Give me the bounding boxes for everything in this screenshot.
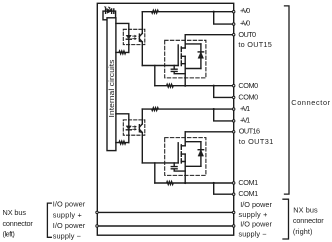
- terminal COM0 (2): [233, 96, 235, 98]
- node: +V1 jumper junction: [213, 108, 215, 110]
- svg-text:Connector: Connector: [291, 98, 330, 107]
- terminal +V1: [233, 108, 235, 110]
- wire: +V0 jumper to second +V0 terminal: [214, 12, 234, 24]
- MOSFET Q1 source lead down to COM0 rail: [184, 56, 186, 85]
- terminal +V0 (2): [233, 23, 235, 25]
- terminal COM1 (2): [233, 193, 235, 195]
- resistor R6 on COM1 rail and COM1 rail wire: [155, 182, 234, 185]
- optocoupler U1 phototransistor: [138, 34, 140, 41]
- optocoupler U1 dashed box: [123, 29, 145, 44]
- wire: OUT16 rail: [185, 131, 234, 133]
- svg-text:+V0: +V0: [240, 19, 250, 28]
- wire: opto LED cathode down to resistor wire: [128, 39, 130, 52]
- outer unit box: [97, 3, 233, 235]
- svg-text:connector: connector: [3, 219, 34, 228]
- svg-text:+V1: +V1: [240, 116, 250, 125]
- LED D1 emission arrows: [104, 6, 111, 10]
- terminal OUT0: [233, 34, 235, 36]
- MOSFET Q1 channel segments: [180, 47, 182, 66]
- terminal I/O power + right: [233, 211, 235, 213]
- wire: photot2 emitter down to gate wire 2: [141, 133, 143, 163]
- wire: internal circuits to optocoupler LED anode: [116, 23, 129, 35]
- gate wire from opto emitter to gate: [142, 65, 178, 67]
- svg-text:COM1: COM1: [238, 189, 258, 198]
- wire: COM0 jumper to second COM0 terminal: [214, 86, 234, 98]
- optocoupler U2 phototransistor: [138, 125, 140, 132]
- svg-text:+V1: +V1: [240, 104, 250, 113]
- wire: OUT0 rail: [185, 34, 234, 36]
- wire: COM1 jumper to second COM1 terminal: [214, 183, 234, 194]
- svg-text:COM0: COM0: [238, 81, 258, 90]
- zener ZD2 gate-source: [171, 163, 185, 171]
- internal circuits box: [107, 18, 116, 151]
- svg-text:connector: connector: [293, 216, 324, 225]
- resistor R3 on COM0 rail and COM0 rail wire: [155, 84, 234, 87]
- zener ZD1 gate-source: [171, 66, 185, 74]
- MOSFET Q2 dashed box: [165, 138, 206, 176]
- MOSFET Q1 gate bar: [177, 45, 179, 66]
- svg-text:I/O power: I/O power: [53, 200, 86, 209]
- svg-text:Internal circuits: Internal circuits: [107, 59, 116, 117]
- light arrows U1: [133, 35, 137, 40]
- node: COM0 jumper junction: [213, 85, 215, 87]
- svg-text:to OUT15: to OUT15: [238, 40, 271, 49]
- svg-text:I/O power: I/O power: [240, 200, 272, 209]
- svg-text:supply +: supply +: [239, 210, 268, 219]
- terminal COM0: [233, 85, 235, 87]
- MOSFET Q1 interior bottom wire: [185, 68, 201, 70]
- bracket: I/O power supply (left): [47, 203, 51, 237]
- wire: +V1 jumper to second +V1 terminal: [214, 109, 234, 121]
- wire: internal circuits to optocoupler 2 LED anode: [116, 114, 129, 126]
- terminal +V1 (2): [233, 120, 235, 122]
- svg-text:+V0: +V0: [240, 6, 250, 15]
- wire: photot2 collector up to +V1 rail: [141, 109, 143, 124]
- MOSFET Q2 stubs: [181, 146, 185, 162]
- node: source junction on COM1: [184, 182, 186, 184]
- svg-text:COM1: COM1: [238, 178, 258, 187]
- svg-text:(left): (left): [3, 229, 15, 238]
- svg-text:supply −: supply −: [53, 232, 81, 241]
- terminal COM1: [233, 182, 235, 184]
- svg-text:NX bus: NX bus: [293, 205, 318, 214]
- MOSFET Q1 stubs: [181, 48, 185, 64]
- terminal I/O power + left: [96, 211, 98, 213]
- svg-text:I/O power: I/O power: [240, 220, 272, 229]
- svg-text:NX bus: NX bus: [3, 208, 27, 217]
- MOSFET Q1 dashed box: [165, 40, 206, 78]
- optocoupler U1 LED: [126, 35, 131, 39]
- node: COM1 jumper junction: [213, 182, 215, 184]
- wire: phototransistor emitter down to gate wire: [141, 42, 143, 66]
- wire: opto2 LED cathode down: [128, 130, 130, 143]
- MOSFET Q1 interior top wire: [185, 43, 201, 45]
- svg-text:COM0: COM0: [238, 92, 258, 101]
- gate wire 2: [142, 162, 178, 164]
- terminal +V0: [233, 11, 235, 13]
- terminal I/O power - left: [96, 225, 98, 227]
- LED D1 (indicator diode on box top edge): [106, 9, 114, 13]
- body diode D2: [200, 44, 202, 69]
- svg-text:to OUT31: to OUT31: [239, 137, 274, 146]
- svg-text:OUT16: OUT16: [239, 127, 260, 136]
- svg-text:OUT0: OUT0: [238, 30, 256, 39]
- terminal circles right edge: [96, 11, 235, 228]
- svg-text:supply +: supply +: [53, 210, 82, 219]
- resistor R4 (opto2 LED series): [116, 141, 129, 144]
- wire: I/O power supply - rail: [97, 225, 234, 227]
- wire: gate pull-down branch: [154, 66, 156, 86]
- resistor R1 (opto LED series): [116, 51, 129, 54]
- MOSFET Q2 channel segments: [180, 145, 182, 163]
- wire: gate 2 pull-down branch: [154, 163, 156, 183]
- node: +V0 jumper junction: [213, 11, 215, 13]
- node: source junction on COM0: [184, 85, 186, 87]
- optocoupler U2 LED: [126, 126, 131, 129]
- wire: I/O power supply + rail: [97, 211, 234, 213]
- body diode D3: [200, 142, 202, 167]
- resistor R2 on +V0 rail and +V0 rail wire: [142, 10, 233, 13]
- MOSFET Q2 source lead down to COM1 rail: [184, 154, 186, 183]
- optocoupler U2 dashed box: [123, 120, 145, 135]
- svg-text:supply −: supply −: [239, 229, 267, 238]
- MOSFET Q1 drain lead: [184, 35, 186, 48]
- resistor R5 on +V1 rail and +V1 rail wire: [142, 108, 233, 111]
- wire: phototransistor collector up to +V0 rail: [141, 12, 143, 34]
- MOSFET Q2 interior bottom wire: [185, 165, 201, 167]
- svg-text:(right): (right): [293, 227, 313, 236]
- bracket: NX bus connector (right): [283, 199, 289, 239]
- MOSFET Q2 drain lead: [184, 132, 186, 146]
- terminal I/O power - right: [233, 225, 235, 227]
- svg-text:I/O power: I/O power: [53, 221, 86, 230]
- terminal OUT16: [233, 131, 235, 133]
- light arrows U2: [133, 126, 137, 131]
- MOSFET Q2 interior top wire: [185, 141, 201, 143]
- LED indicator box: [103, 11, 116, 20]
- MOSFET Q2 gate bar: [177, 143, 179, 163]
- bracket: Connector: [285, 6, 290, 194]
